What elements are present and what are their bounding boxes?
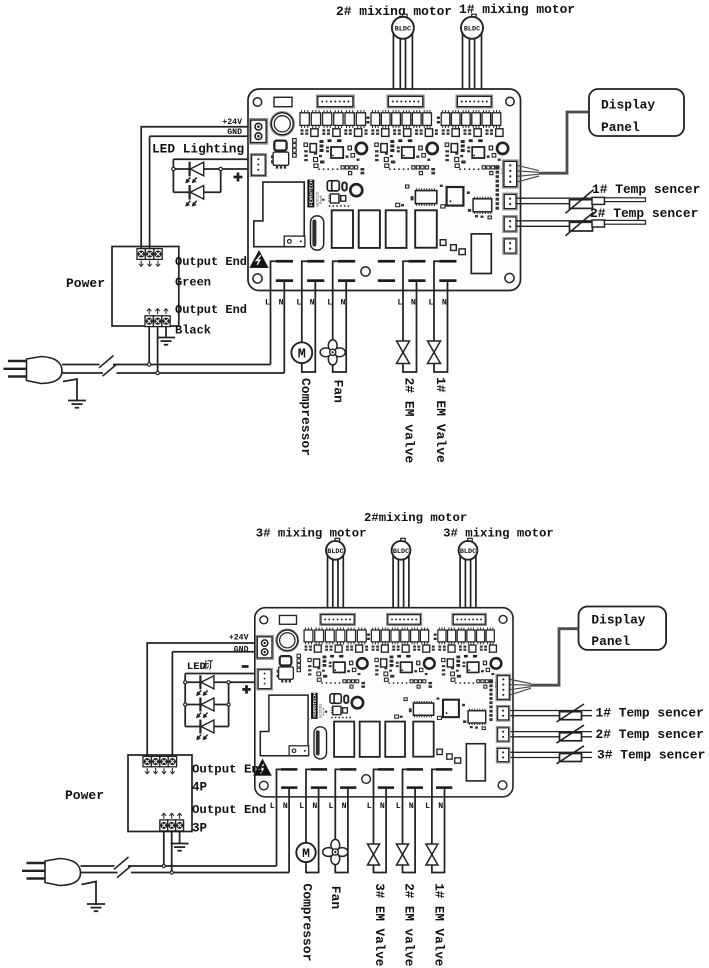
svg-text:L: L	[396, 802, 401, 811]
PCB controller board 2	[255, 608, 513, 797]
svg-text:1# Temp sencer: 1# Temp sencer	[596, 705, 704, 720]
svg-text:Output End: Output End	[175, 303, 247, 317]
compressor motor M	[296, 843, 315, 862]
wire channel5 valve2 loop	[403, 769, 416, 872]
svg-text:1# EM Valve: 1# EM Valve	[431, 883, 445, 966]
power supply box	[112, 247, 179, 327]
node rail N junction	[170, 871, 173, 874]
svg-text:2# EM valve: 2# EM valve	[401, 378, 416, 464]
EM valve coil symbol	[426, 844, 438, 865]
LED D4	[199, 675, 201, 689]
svg-text:Fan: Fan	[328, 886, 343, 910]
svg-text:L: L	[425, 802, 430, 811]
node LED A	[184, 681, 187, 684]
LED D5	[199, 697, 201, 711]
svg-text:2#mixing motor: 2#mixing motor	[364, 511, 467, 525]
BLDC motor	[326, 538, 345, 559]
wire GND	[172, 652, 257, 757]
switch S1 pole L	[99, 356, 114, 368]
svg-text:N: N	[283, 802, 288, 811]
wire AC rail N	[81, 872, 290, 874]
svg-text:2# mixing motor: 2# mixing motor	[336, 4, 452, 19]
svg-text:BLDC: BLDC	[393, 548, 409, 556]
wire channel1 N	[283, 281, 285, 373]
wire PSU N out	[157, 327, 159, 373]
svg-text:N: N	[342, 802, 347, 811]
svg-text:M: M	[302, 846, 310, 861]
svg-text:Display: Display	[601, 98, 655, 113]
svg-text:3# mixing motor: 3# mixing motor	[256, 527, 367, 541]
svg-text:BLDC: BLDC	[460, 548, 476, 556]
svg-text:Compressor: Compressor	[299, 883, 314, 961]
output terminal 4P	[143, 756, 177, 773]
wire channel6 valve1 loop	[434, 261, 448, 372]
wire LED top rail	[173, 158, 251, 160]
LED D6	[199, 719, 201, 733]
node LED B	[227, 681, 230, 684]
AC power plug	[4, 357, 63, 384]
wire PSU N out	[171, 831, 173, 873]
wire LED right rail	[228, 682, 230, 726]
EM valve coil symbol	[397, 844, 409, 865]
wire LED mid stubs	[185, 704, 228, 706]
svg-text:2# EM valve: 2# EM valve	[402, 883, 416, 966]
BLDC motor	[459, 538, 478, 559]
svg-text:N: N	[409, 802, 414, 811]
svg-text:BLDC: BLDC	[395, 25, 411, 33]
ground plug	[68, 401, 86, 408]
wire plug earth	[63, 379, 77, 400]
svg-text:N: N	[312, 802, 317, 811]
wire AC rail L	[62, 364, 271, 366]
wire GND	[150, 136, 251, 249]
wire channel2 compressor loop	[306, 769, 319, 872]
warning triangle	[250, 251, 268, 268]
wire channel2 compressor loop	[302, 261, 316, 372]
wire motor leads	[328, 553, 344, 614]
thermistor probe 3	[511, 746, 593, 764]
fan symbol	[320, 340, 345, 365]
svg-text:L: L	[329, 802, 334, 811]
svg-text:3# EM Valve: 3# EM Valve	[372, 883, 386, 966]
node LED A	[172, 167, 175, 170]
svg-text:Black: Black	[175, 324, 211, 338]
wire PSU L out	[148, 327, 150, 365]
wire +24V	[147, 643, 257, 757]
output terminal green	[137, 249, 162, 267]
wire PSU earth	[165, 327, 167, 338]
svg-text:N: N	[380, 802, 385, 811]
compressor motor M	[291, 342, 312, 363]
EM valve coil symbol	[397, 341, 410, 364]
polarity +	[234, 173, 243, 182]
svg-text:N: N	[411, 298, 416, 307]
wire LED bottom rail	[173, 191, 220, 193]
svg-text:2# Temp sencer: 2# Temp sencer	[596, 727, 704, 742]
display panel box	[579, 607, 667, 650]
power supply box	[128, 755, 192, 832]
svg-text:3# mixing motor: 3# mixing motor	[443, 527, 554, 541]
switch S2 pole N	[117, 866, 132, 878]
wire channel1 N	[288, 788, 290, 873]
wire display cable	[531, 629, 579, 686]
svg-text:Compressor: Compressor	[298, 378, 313, 456]
svg-text:Power: Power	[66, 276, 105, 291]
wire motor leads	[393, 31, 412, 96]
AC power plug	[22, 859, 81, 886]
svg-text:BLDC: BLDC	[464, 25, 480, 33]
warning triangle	[254, 760, 271, 776]
svg-text:N: N	[279, 298, 284, 307]
glyph lamp CJK	[203, 660, 213, 669]
fan symbol	[323, 839, 348, 864]
LED D3	[189, 185, 191, 200]
wire channel1 L	[271, 261, 276, 364]
LED D2	[189, 162, 191, 177]
BLDC motor	[392, 538, 411, 559]
svg-text:1# Temp sencer: 1# Temp sencer	[592, 182, 700, 197]
polarity -	[242, 665, 249, 668]
output terminal 3P	[160, 813, 184, 831]
wire motor leads	[460, 553, 476, 614]
switch S1 pole N	[103, 364, 118, 376]
svg-text:Panel: Panel	[601, 120, 640, 135]
svg-text:3P: 3P	[192, 821, 208, 835]
wire channel5 valve2 loop	[403, 261, 417, 372]
svg-text:Fan: Fan	[331, 380, 346, 404]
labels L N pads	[265, 298, 447, 307]
svg-text:BLDC: BLDC	[327, 548, 343, 556]
wire LED top rail	[185, 673, 258, 675]
wire LED mid rail	[173, 168, 251, 170]
svg-text:N: N	[438, 802, 443, 811]
BLDC motor	[392, 14, 414, 39]
PCB controller board 1	[248, 89, 521, 291]
svg-text:GND: GND	[234, 645, 249, 654]
svg-text:Power: Power	[65, 788, 104, 803]
svg-text:2# Temp sencer: 2# Temp sencer	[590, 206, 698, 221]
svg-text:L: L	[429, 298, 434, 307]
node rail L junction	[148, 363, 151, 366]
EM valve coil symbol	[368, 844, 380, 865]
switch S2 pole L	[114, 857, 129, 869]
svg-text:Display: Display	[591, 613, 645, 628]
wire LED left rail	[184, 674, 186, 727]
wire display fan-out	[517, 165, 539, 182]
svg-text:Output End: Output End	[192, 803, 266, 817]
svg-text:N: N	[310, 298, 315, 307]
wire channel3 fan loop	[333, 261, 347, 372]
svg-text:3# Temp sencer: 3# Temp sencer	[597, 748, 705, 763]
wire channel3 fan loop	[335, 769, 348, 872]
ground plug	[87, 904, 105, 911]
svg-text:L: L	[296, 298, 301, 307]
ground PSU	[157, 338, 175, 345]
wire PSU earth	[179, 831, 181, 844]
node LED D	[227, 703, 230, 706]
wire AC rail N	[62, 372, 284, 374]
svg-text:1# EM Valve: 1# EM Valve	[433, 377, 448, 463]
wire channel6 valve1 loop	[432, 769, 445, 872]
wire PSU L out	[163, 831, 165, 866]
wire AC rail L	[81, 865, 277, 867]
ground PSU	[171, 844, 189, 851]
BLDC motor	[461, 14, 483, 39]
svg-text:M: M	[298, 347, 306, 362]
svg-text:N: N	[341, 298, 346, 307]
thermistor probe 1	[517, 190, 646, 214]
output terminal black	[145, 309, 170, 327]
EM valve coil symbol	[428, 341, 441, 364]
svg-text:L: L	[327, 298, 332, 307]
node LED B	[219, 167, 222, 170]
svg-text:L: L	[398, 298, 403, 307]
svg-text:L: L	[299, 802, 304, 811]
labels L N pads	[270, 802, 444, 811]
display panel box	[589, 89, 684, 136]
node rail N junction	[156, 371, 159, 374]
svg-text:Output End: Output End	[175, 255, 247, 269]
wire LED left rail	[172, 159, 174, 192]
wire channel4 valve3 loop	[374, 769, 387, 872]
wire motor leads	[393, 553, 409, 614]
svg-text:+24V: +24V	[222, 118, 242, 127]
svg-text:L: L	[367, 802, 372, 811]
thermistor probe 1	[511, 704, 593, 722]
wire LED mid rail	[185, 681, 258, 683]
node rail L junction	[162, 864, 165, 867]
svg-text:N: N	[442, 298, 447, 307]
thermistor probe 2	[517, 212, 646, 236]
svg-text:LED Lighting: LED Lighting	[152, 142, 244, 157]
svg-text:+24V: +24V	[229, 633, 249, 642]
svg-text:Green: Green	[175, 276, 211, 290]
wire display cable	[539, 112, 589, 173]
wire LED right rail	[220, 169, 222, 192]
wire LED bottom rail	[185, 726, 228, 728]
wire +24V	[141, 127, 250, 249]
polarity +	[242, 685, 250, 693]
wire channel1 L	[277, 769, 282, 866]
svg-text:4P: 4P	[192, 781, 208, 795]
svg-text:L: L	[265, 298, 270, 307]
svg-text:Output End: Output End	[192, 762, 266, 776]
svg-text:GND: GND	[227, 128, 242, 137]
node LED C	[184, 703, 187, 706]
wire display fan-out	[510, 679, 531, 695]
svg-text:Panel: Panel	[591, 634, 630, 649]
wire motor leads	[463, 31, 482, 96]
wire plug earth	[82, 882, 97, 904]
svg-text:L: L	[270, 802, 275, 811]
thermistor probe 2	[511, 725, 593, 743]
